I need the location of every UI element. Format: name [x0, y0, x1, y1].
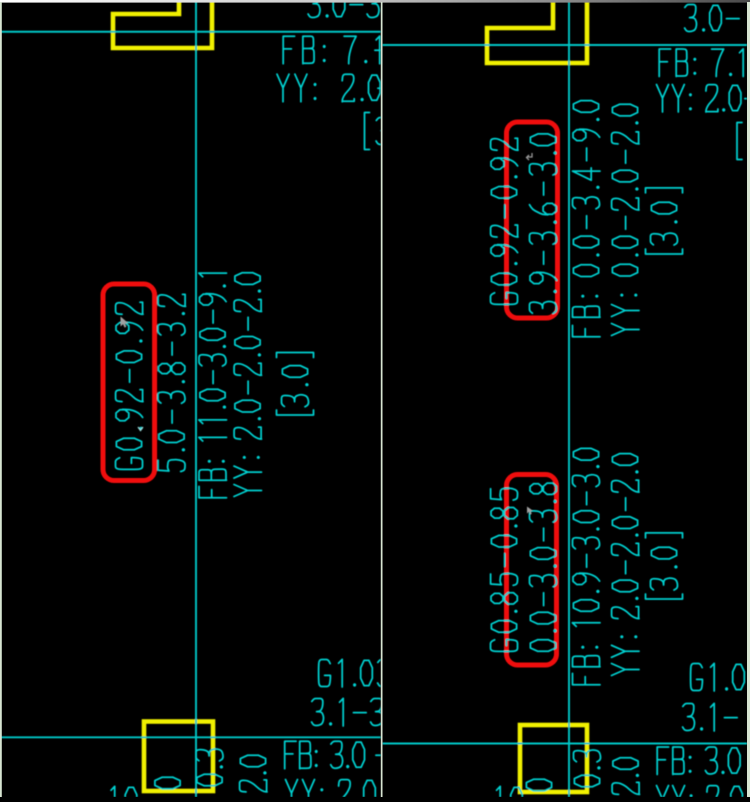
- vertical cyan grid line (right panel): [568, 0, 570, 797]
- horizontal cyan grid line bottom (right panel): [382, 743, 747, 745]
- rotated label YY: 2.0-2.0-2.0 (right panel bottom): [612, 454, 640, 676]
- label G1.0 (right panel bottom): [691, 663, 745, 691]
- rotated label G0.85-0.85 (right panel bottom, highlighted): [491, 488, 518, 651]
- label YY: 2.0- (right panel top): [657, 85, 750, 113]
- yellow column symbol top (right panel): [487, 0, 587, 63]
- red highlight box bottom (right panel): [507, 475, 557, 666]
- label dash stub after 3.0 (left panel bottom): [376, 754, 389, 756]
- rotated label 5.0-3.8-3.2 (left panel): [158, 294, 186, 471]
- rotated label 2.0 (right panel bottom, clipped): [612, 758, 639, 795]
- yellow column square bottom (right panel): [520, 725, 587, 792]
- rotated label G0.92-0.92 (left panel, highlighted): [116, 302, 144, 469]
- small artifact caret (left panel): [138, 427, 143, 431]
- label [ bracket (right panel top): [737, 123, 742, 160]
- horizontal cyan grid line top (right panel): [382, 44, 747, 46]
- label FB: 3.0 (right panel bottom): [657, 747, 740, 775]
- label 3.1- (right panel bottom): [683, 703, 738, 731]
- red highlight box (left panel): [103, 284, 155, 481]
- label 10 fragment (right panel bottom-left, clipped): [497, 786, 523, 802]
- rotated label 0.0-3.0-3.8 (right panel bottom, highlighted): [530, 483, 557, 651]
- rotated label 3.9-3.6-3.0 (right panel top, highlighted): [530, 134, 557, 314]
- rotated label [3.0] (left panel): [277, 353, 314, 416]
- rotated label 2.0 (left panel bottom, clipped): [240, 755, 267, 792]
- rotated label G0.92-0.92 (right panel top, highlighted): [491, 138, 519, 304]
- label YY: 2.0 (left panel top): [277, 74, 380, 102]
- label FB: 3.0 (left panel bottom): [285, 741, 365, 769]
- rotated label 0 in square (left panel bottom): [155, 777, 180, 789]
- central pale divider between panels: [381, 2, 383, 797]
- rotated label YY: 2.0-2.0-2.0 (left panel): [234, 273, 262, 497]
- rotated label FB: 11.0-3.0-9.1 (left panel): [199, 273, 227, 498]
- label 3.0-3 top (left panel, clipped): [308, 0, 379, 18]
- label YY: 2.0 (right panel bottom, clipped): [657, 786, 743, 802]
- left pale edge strip: [0, 2, 2, 797]
- label 3.0- (right panel top): [685, 5, 740, 32]
- rotated label 0 in square (right panel bottom): [526, 779, 551, 791]
- label [3 bracket (left panel top): [365, 113, 389, 150]
- red highlight box top (right panel): [507, 122, 558, 318]
- mouse cursor artifact (left panel): [121, 317, 129, 328]
- label dash stub after 7.1 (left panel top): [375, 49, 388, 51]
- yellow column square bottom (left panel): [144, 722, 213, 792]
- rotated label [3.0] bottom (right panel): [646, 533, 683, 599]
- label dash stub after 2.0 (left panel top): [378, 87, 391, 89]
- mouse cursor artifact return-arrow (right panel top box): [527, 153, 533, 160]
- top window edge strip: [0, 0, 750, 3]
- vertical cyan grid line (left panel): [195, 0, 197, 797]
- label FB: 7.1- (right panel top): [659, 49, 750, 77]
- rotated label FB: 10.9-3.0-3.0 (right panel bottom): [572, 448, 600, 684]
- rotated label YY: 0.0-2.0-2.0 (right panel top): [612, 104, 640, 335]
- mouse cursor artifact (right panel bottom box): [527, 507, 533, 515]
- right pale edge strip: [747, 2, 750, 797]
- label 3.1-3 (left panel bottom, clipped): [312, 698, 383, 726]
- label YY: 2.0 (left panel bottom, clipped): [286, 780, 376, 802]
- rotated label FB: 0.0-3.4-9.0 (right panel top): [573, 101, 601, 337]
- label G1.03 (left panel bottom, clipped): [319, 659, 390, 687]
- label FB: 7.1 (left panel top): [283, 36, 380, 64]
- label 10 fragment (left panel bottom-left, clipped): [111, 786, 137, 802]
- rotated label 0.3 (left panel bottom): [196, 749, 223, 786]
- rotated label [3.0] (right panel top): [646, 188, 683, 254]
- horizontal cyan grid line top (left panel): [0, 31, 381, 33]
- rotated label 0.3 (right panel bottom): [574, 750, 601, 787]
- yellow column symbol top (left panel): [113, 0, 212, 48]
- horizontal cyan grid line bottom (left panel): [0, 736, 381, 738]
